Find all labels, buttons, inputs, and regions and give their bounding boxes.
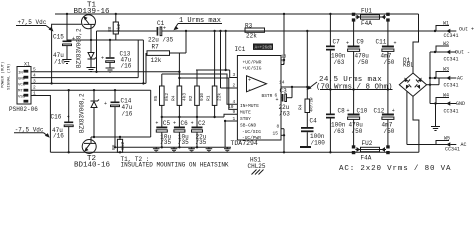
svg-text:W4: W4 <box>443 93 449 99</box>
svg-text:BSTR: BSTR <box>262 93 273 99</box>
svg-text:MUTE: MUTE <box>240 110 251 116</box>
connector W1 Out+ <box>435 21 474 40</box>
zener D (BZX83V008,2 top) <box>76 28 97 68</box>
svg-text:PSH02-06: PSH02-06 <box>9 106 38 113</box>
svg-text:4k3: 4k3 <box>182 93 188 101</box>
wire output riser <box>306 31 308 99</box>
svg-text:6k2: 6k2 <box>120 142 126 150</box>
svg-text:R1: R1 <box>206 95 212 101</box>
svg-text:C10: C10 <box>357 108 368 115</box>
svg-text:/50: /50 <box>358 59 369 66</box>
svg-text:CHL25: CHL25 <box>248 163 266 170</box>
svg-text:W5: W5 <box>444 136 450 142</box>
svg-text:/50: /50 <box>384 128 395 135</box>
wire X1 pin5 IN row <box>31 31 179 73</box>
capacitor C14 <box>104 90 133 147</box>
svg-text:CC341: CC341 <box>444 33 459 39</box>
svg-text:VCC: VCC <box>18 84 26 88</box>
svg-text:R5: R5 <box>153 95 159 101</box>
svg-text:W3: W3 <box>443 67 449 73</box>
connector W4 GND <box>430 93 465 131</box>
wire X1 pin3 VCC row <box>31 40 146 85</box>
svg-text:C9: C9 <box>357 39 365 46</box>
resistor R8 <box>107 14 122 40</box>
svg-text:22k: 22k <box>246 33 257 40</box>
wire +V rail <box>55 13 419 15</box>
text T1,T2 insulated note <box>121 156 229 168</box>
zener D (BZX83V008,2 bottom) <box>79 90 100 137</box>
capacitor C13 <box>101 40 132 70</box>
svg-text:/100: /100 <box>311 140 326 147</box>
wire sb-gnd pin1 <box>224 120 237 148</box>
svg-text:C4: C4 <box>310 118 318 125</box>
svg-text:+: + <box>347 108 350 114</box>
svg-text:R2: R2 <box>188 95 194 101</box>
svg-text:+: + <box>104 101 107 107</box>
capacitor C15 <box>53 14 75 66</box>
svg-text:C3: C3 <box>280 88 288 95</box>
svg-text:C8: C8 <box>338 108 346 115</box>
svg-text:/63: /63 <box>334 59 345 66</box>
svg-text:POWER (OUT): POWER (OUT) <box>1 62 6 88</box>
svg-text:R4: R4 <box>171 95 177 101</box>
resistor R6 <box>111 137 126 152</box>
svg-text:+: + <box>276 97 279 103</box>
capacitor C1 <box>148 20 174 44</box>
capacitor C8 <box>326 90 346 154</box>
svg-text:AC: AC <box>457 76 463 82</box>
svg-text:IN+MUTE: IN+MUTE <box>240 103 259 109</box>
svg-text:/16: /16 <box>121 63 132 70</box>
svg-text:14: 14 <box>279 80 285 86</box>
wire +7.5 emitter feed <box>52 24 82 83</box>
wire mute bus (y=117) <box>161 116 224 118</box>
svg-text:CC341: CC341 <box>444 109 459 115</box>
wire input/output line (y=31) <box>97 30 453 32</box>
svg-text:C7: C7 <box>333 39 341 46</box>
wire node -7.5 (y=137) <box>91 136 151 138</box>
svg-text:W2: W2 <box>443 41 449 47</box>
ground (bus sym 2) <box>171 147 178 152</box>
svg-text:AC: AC <box>461 142 467 148</box>
svg-text:12k: 12k <box>151 57 162 64</box>
ground (zener top) <box>87 68 96 72</box>
svg-text:Out -: Out - <box>455 50 470 56</box>
resistor R2 <box>188 70 205 117</box>
svg-text:CC341: CC341 <box>444 83 459 89</box>
diode bridge D1 KBL <box>399 57 439 152</box>
svg-text:BD139-16: BD139-16 <box>74 8 111 16</box>
svg-text:SIGNAL (IN): SIGNAL (IN) <box>7 64 12 90</box>
capacitor C12 <box>374 90 395 146</box>
svg-text:MT: MT <box>18 90 23 94</box>
wire gnd bus right (y=89.5) <box>320 88 393 90</box>
svg-text:GND: GND <box>456 101 465 107</box>
svg-text:F4A: F4A <box>361 155 372 162</box>
wire mute line pin10 <box>178 77 237 110</box>
svg-text:2: 2 <box>33 85 36 91</box>
svg-text:/16: /16 <box>122 111 133 118</box>
svg-text:INSULATED MOUNTING ON HEATSINK: INSULATED MOUNTING ON HEATSINK <box>121 161 229 168</box>
connector W2 Out- <box>430 41 470 63</box>
capacitor C4 <box>301 118 325 147</box>
svg-text:C5: C5 <box>163 120 171 127</box>
svg-text:+: + <box>67 114 70 120</box>
svg-text:22k: 22k <box>217 93 223 101</box>
wire IC -supply pins 8/15 <box>281 129 285 154</box>
svg-text:8k2: 8k2 <box>164 93 170 101</box>
svg-text:FU2: FU2 <box>362 140 373 147</box>
svg-text:VSS: VSS <box>18 96 26 100</box>
capacitor C7 <box>326 13 346 90</box>
svg-text:C11: C11 <box>376 39 387 46</box>
capacitor C10 <box>347 90 368 146</box>
node 24,5 Urms label <box>307 76 393 92</box>
ground (bus sym 1) <box>153 147 160 152</box>
ground (bus sym 4) <box>206 147 213 152</box>
svg-text:8: 8 <box>277 124 280 130</box>
capacitor C16 <box>51 90 74 152</box>
svg-text:+UC/PWR: +UC/PWR <box>243 60 262 66</box>
wire node +7.5 (y=40) <box>66 13 144 41</box>
svg-text:F4A: F4A <box>361 20 372 27</box>
transistor T1 <box>74 2 111 41</box>
svg-text:3: 3 <box>233 72 236 78</box>
svg-text:IC1: IC1 <box>235 46 246 53</box>
svg-text:BD140-16: BD140-16 <box>74 161 111 169</box>
svg-text:22u /35: 22u /35 <box>148 37 174 44</box>
wire R3 to pin2 riser <box>221 31 238 88</box>
svg-text:R4: R4 <box>298 104 304 110</box>
ground (bus sym 5) <box>224 147 231 152</box>
svg-text:/16: /16 <box>53 133 64 140</box>
svg-text:X1: X1 <box>24 62 30 68</box>
svg-text:+7,5 Vdc: +7,5 Vdc <box>18 19 47 26</box>
svg-text:W1: W1 <box>443 21 449 27</box>
svg-text:/63: /63 <box>334 128 345 135</box>
svg-text:+: + <box>173 121 176 127</box>
svg-text:4: 4 <box>233 99 236 105</box>
svg-text:AC: 2x20 Vrms / 80 VA: AC: 2x20 Vrms / 80 VA <box>339 165 451 173</box>
fuse FU1 <box>352 8 390 28</box>
node +7,5 Vdc label <box>16 19 54 32</box>
svg-text:Out +: Out + <box>459 27 474 33</box>
text AC rating <box>339 165 451 173</box>
svg-text:/50: /50 <box>352 128 363 135</box>
svg-text:/35: /35 <box>178 139 189 146</box>
svg-text:+UC/SIG: +UC/SIG <box>243 66 262 72</box>
connector X1 <box>1 62 39 114</box>
wire +V rail drop to bridge <box>413 14 419 73</box>
svg-text:2: 2 <box>233 83 236 89</box>
capacitor C5 <box>155 117 171 147</box>
resistor R7 <box>147 31 186 64</box>
capacitor C6 <box>173 117 189 147</box>
svg-text:IN: IN <box>18 72 23 76</box>
svg-text:GND: GND <box>18 78 26 82</box>
svg-text:4R7/2W: 4R7/2W <box>310 97 315 112</box>
wire IC +supply pins 13/7 <box>281 13 285 65</box>
wire input riser to pin3 <box>196 31 237 78</box>
capacitor C9 <box>346 21 369 90</box>
wire stby pin9 <box>224 114 237 117</box>
svg-text:CC341: CC341 <box>444 57 459 63</box>
svg-text:+: + <box>155 121 158 127</box>
svg-text:1: 1 <box>233 116 236 122</box>
svg-text:R3: R3 <box>245 23 253 30</box>
svg-text:/35: /35 <box>160 139 171 146</box>
wire output pin14 <box>281 86 308 88</box>
heatsink HS1 <box>248 157 266 175</box>
wire gnd bus center (y=148.8) <box>114 146 231 148</box>
node -7,5 Vdc label <box>14 127 50 138</box>
wire mute line pin4 <box>162 74 238 104</box>
resistor R4 (zobel) <box>298 97 315 127</box>
svg-text:+: + <box>392 108 395 114</box>
svg-text:C12: C12 <box>374 108 385 115</box>
svg-text:/50: /50 <box>384 59 395 66</box>
svg-text:+: + <box>191 121 194 127</box>
svg-text:BZX83V008,2: BZX83V008,2 <box>79 93 86 133</box>
ground (C4) <box>300 146 311 148</box>
svg-text:C6: C6 <box>181 120 189 127</box>
transistor T2 <box>74 137 111 169</box>
resistor R3 <box>245 23 265 40</box>
svg-text:9: 9 <box>233 109 236 115</box>
wire W-column (Out-/AC/GND tie) <box>429 52 431 104</box>
svg-text:C2: C2 <box>198 120 206 127</box>
svg-text:R7: R7 <box>152 44 160 51</box>
wire X1 pin4 GND row <box>31 40 138 78</box>
svg-text:CC341: CC341 <box>445 147 460 153</box>
resistor R5 <box>153 74 170 117</box>
svg-text:A=+26dB: A=+26dB <box>255 46 273 51</box>
svg-text:SB-GND: SB-GND <box>240 123 257 129</box>
ground (C13) <box>106 68 115 72</box>
svg-text:KBL: KBL <box>403 62 414 69</box>
svg-text:C16: C16 <box>51 114 62 121</box>
svg-text:C15: C15 <box>53 34 64 41</box>
connector W5 AC <box>407 136 467 153</box>
fuse FU2 <box>352 140 390 162</box>
svg-text:/35: /35 <box>196 139 207 146</box>
svg-text:+: + <box>346 41 349 47</box>
capacitor C3 (bootstrap) <box>276 87 293 118</box>
svg-text:+: + <box>394 41 397 47</box>
svg-text:BZX83V008,2: BZX83V008,2 <box>76 28 83 68</box>
svg-text:+: + <box>101 56 104 62</box>
svg-text:+: + <box>163 26 166 32</box>
svg-text:15: 15 <box>273 131 279 137</box>
svg-text:TDA7294: TDA7294 <box>231 140 258 147</box>
svg-text:FU1: FU1 <box>361 8 372 15</box>
wire -V rail <box>50 151 419 153</box>
wire X1 pin2 MT row (regulator mid line) <box>31 89 151 137</box>
svg-text:+: + <box>248 78 251 84</box>
connector W3 AC <box>430 67 463 89</box>
op-amp IC1 TDA7294 <box>228 44 287 147</box>
capacitor C2 <box>191 117 207 147</box>
svg-text:910: 910 <box>199 93 205 101</box>
svg-text:/63: /63 <box>279 111 290 118</box>
resistor R4 <box>171 53 188 117</box>
wire VSS riser <box>31 96 50 153</box>
capacitor C11 <box>376 21 397 90</box>
node 1 Urms max label <box>174 17 223 30</box>
ground (C15) <box>63 60 72 64</box>
svg-text:STBY: STBY <box>240 116 251 122</box>
svg-text:-: - <box>248 87 251 93</box>
ground (bus sym 3) <box>188 147 195 152</box>
svg-text:-UC/SIG: -UC/SIG <box>242 129 261 135</box>
resistor R1 <box>206 31 223 117</box>
